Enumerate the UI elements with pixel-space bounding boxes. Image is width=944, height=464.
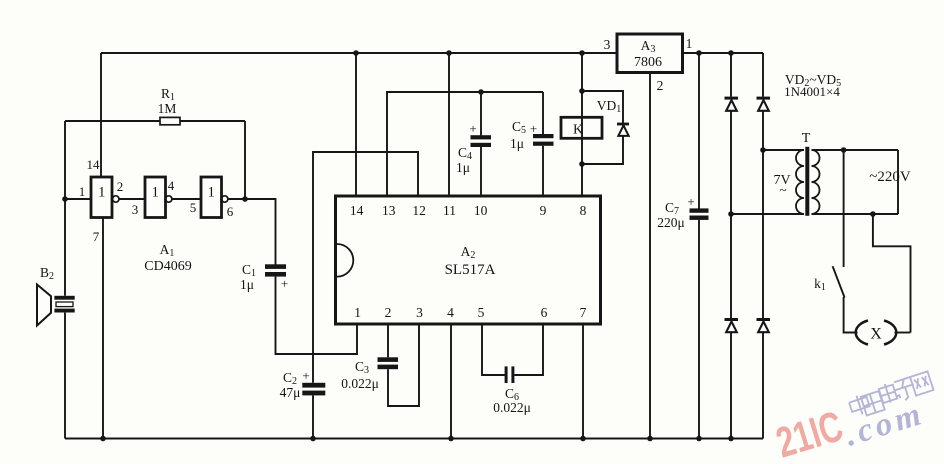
wire C1 to IC pin1 <box>276 277 358 354</box>
svg-text:.com: .com <box>841 396 929 454</box>
node C4 top <box>478 89 484 95</box>
wire IC pin11 to top bus <box>448 53 450 196</box>
svg-text:1μ: 1μ <box>510 136 524 151</box>
svg-text:6: 6 <box>227 204 234 219</box>
svg-text:1: 1 <box>79 184 86 199</box>
svg-text:220μ: 220μ <box>657 215 685 230</box>
svg-text:11: 11 <box>443 203 456 218</box>
svg-text:1: 1 <box>686 36 693 51</box>
transformer T <box>796 131 820 216</box>
wire R1 left leg down to B2 <box>64 121 66 296</box>
capacitor C5 <box>510 92 554 196</box>
node pin4 bottom <box>448 436 454 442</box>
diode VD2 <box>725 97 739 111</box>
svg-text:1: 1 <box>98 185 105 201</box>
svg-text:7806: 7806 <box>634 55 662 70</box>
svg-text:21IC: 21IC <box>771 401 848 464</box>
svg-text:2: 2 <box>385 305 392 320</box>
svg-text:3: 3 <box>416 305 423 320</box>
node A3 output at C7 <box>696 50 702 56</box>
wire C2 to bottom bus <box>312 395 314 438</box>
svg-text:1: 1 <box>152 185 159 201</box>
capacitor C6 <box>493 366 531 415</box>
svg-text:14: 14 <box>87 157 101 172</box>
node pin7 bottom <box>580 436 586 442</box>
svg-text:SL517A: SL517A <box>445 262 496 278</box>
svg-text:4: 4 <box>447 305 454 320</box>
capacitor C1 <box>240 262 288 292</box>
svg-text:2: 2 <box>657 78 664 93</box>
node C7 bottom <box>696 436 702 442</box>
wire secondary loop right <box>897 150 899 214</box>
node k1 branch <box>841 147 847 153</box>
wire C3 to IC pin3 <box>388 324 419 406</box>
svg-text:10: 10 <box>474 203 488 218</box>
wire IC pin14 to top bus <box>355 53 357 196</box>
svg-text:14: 14 <box>350 203 364 218</box>
node K bottom <box>579 161 585 167</box>
wire IC pin13 net <box>387 92 543 196</box>
svg-text:3: 3 <box>132 202 139 217</box>
svg-text:0.022μ: 0.022μ <box>341 376 379 391</box>
wire secondary bottom <box>812 213 899 215</box>
wire gate3 output to C1 <box>245 199 276 265</box>
svg-text:C5: C5 <box>512 119 526 136</box>
capacitor C2 <box>280 368 326 400</box>
svg-text:T: T <box>802 131 811 146</box>
IC A2 SL517A <box>336 196 601 324</box>
wire A3 output bus <box>683 52 764 54</box>
wire bridge right column <box>762 53 764 439</box>
wire primary top <box>763 149 804 151</box>
inverter gate A1c <box>201 177 228 218</box>
svg-text:1N4001×4: 1N4001×4 <box>784 84 840 99</box>
node C2 bottom <box>310 436 316 442</box>
svg-text:VD1: VD1 <box>597 98 622 115</box>
svg-text:~220V: ~220V <box>869 169 911 185</box>
svg-text:5: 5 <box>478 305 485 320</box>
capacitor C4 <box>456 92 491 196</box>
node bridge left to primary <box>728 211 734 217</box>
wire k1 lower to lamp <box>844 297 858 333</box>
wire IC pin5 to C6 <box>482 324 505 375</box>
svg-text:+: + <box>530 121 537 136</box>
wire k1 upper <box>843 150 845 267</box>
capacitor C7 <box>657 53 708 439</box>
svg-text:K: K <box>573 123 583 138</box>
diode VD4 <box>725 318 739 332</box>
lamp X <box>856 321 897 345</box>
wire IC pin4 to bottom bus <box>450 324 452 439</box>
regulator A3 7806 <box>617 34 683 73</box>
watermark Chinese characters <box>847 370 935 419</box>
diode VD1 <box>582 91 629 164</box>
svg-text:1μ: 1μ <box>456 160 470 175</box>
node K top <box>579 88 585 94</box>
svg-text:7: 7 <box>580 305 587 320</box>
node top bus at pin11 <box>446 50 452 56</box>
wire gate1 input <box>65 198 91 200</box>
wire IC pin2 to C3 <box>387 324 389 357</box>
wire B2 to bottom bus <box>64 313 66 439</box>
node A3 pin2 bottom <box>647 436 653 442</box>
svg-text:13: 13 <box>382 203 396 218</box>
wire gate2 to gate3 <box>172 198 201 200</box>
svg-text:X: X <box>870 326 882 343</box>
node gate pin7 bottom <box>100 436 106 442</box>
node gate1 input junction <box>62 196 68 202</box>
diode VD3 <box>757 97 771 111</box>
svg-text:8: 8 <box>580 203 587 218</box>
node top bus at pin14 <box>353 50 359 56</box>
wire IC pin7 to bottom bus <box>582 324 584 439</box>
svg-text:9: 9 <box>540 203 547 218</box>
speaker B2 <box>37 265 75 326</box>
wire C6 to IC pin6 <box>514 324 543 375</box>
wire lamp loop <box>873 214 911 333</box>
svg-text:+: + <box>281 276 288 291</box>
svg-text:+: + <box>469 121 476 136</box>
svg-text:2: 2 <box>117 179 124 194</box>
wire gate1 to gate2 <box>119 198 145 200</box>
inverter gate A1b <box>145 177 172 218</box>
wire IC pin12 net to C2 <box>313 152 418 383</box>
node bridge right to primary <box>760 147 766 153</box>
wire R1 right leg to gate3 output node <box>244 121 246 199</box>
svg-text:A3: A3 <box>641 38 656 55</box>
svg-text:+: + <box>687 194 694 209</box>
wire gate1 pin7 to bottom bus <box>102 218 104 439</box>
svg-text:1: 1 <box>208 185 215 201</box>
wire primary bottom <box>731 213 804 215</box>
svg-text:47μ: 47μ <box>280 385 301 400</box>
node bridge left bottom <box>728 436 734 442</box>
svg-text:12: 12 <box>412 203 426 218</box>
svg-text:A2: A2 <box>461 244 476 261</box>
wire A3 pin2 to bottom bus <box>649 73 651 439</box>
svg-text:A1: A1 <box>160 242 175 259</box>
svg-text:CD4069: CD4069 <box>144 259 191 274</box>
diode VD5 <box>757 318 771 332</box>
watermark .com <box>841 396 929 454</box>
svg-text:~: ~ <box>779 182 786 197</box>
capacitor C3 <box>341 357 398 391</box>
wire bridge left column <box>730 53 732 439</box>
wire gate3 output <box>228 198 245 200</box>
svg-text:1M: 1M <box>158 101 177 116</box>
inverter gate A1a <box>91 177 119 218</box>
wire secondary top <box>812 149 899 151</box>
svg-text:1: 1 <box>354 305 361 320</box>
node top bus at pin8 <box>579 50 585 56</box>
wire bottom bus <box>65 438 763 440</box>
svg-text:+: + <box>302 368 309 383</box>
resistor R1 <box>65 86 245 125</box>
node A3 output at bridge <box>728 50 734 56</box>
svg-text:4: 4 <box>168 178 175 193</box>
svg-text:C3: C3 <box>355 359 369 376</box>
wire gate1 pin14 stub <box>100 53 102 177</box>
wire top supply bus <box>101 52 617 54</box>
svg-text:B2: B2 <box>40 265 54 282</box>
svg-text:3: 3 <box>604 37 611 52</box>
svg-text:6: 6 <box>541 305 548 320</box>
svg-text:0.022μ: 0.022μ <box>493 400 531 415</box>
svg-text:1μ: 1μ <box>240 277 254 292</box>
svg-text:5: 5 <box>190 200 197 215</box>
wire lamp right <box>895 332 911 334</box>
svg-text:k1: k1 <box>814 276 826 293</box>
switch k1 <box>814 266 844 297</box>
watermark 21IC. <box>771 401 848 464</box>
node gate3 output junction <box>242 196 248 202</box>
node lamp branch <box>870 211 876 217</box>
svg-text:7: 7 <box>93 229 100 244</box>
wire K net vertical to IC pin8 <box>581 53 583 196</box>
relay K <box>561 117 602 138</box>
